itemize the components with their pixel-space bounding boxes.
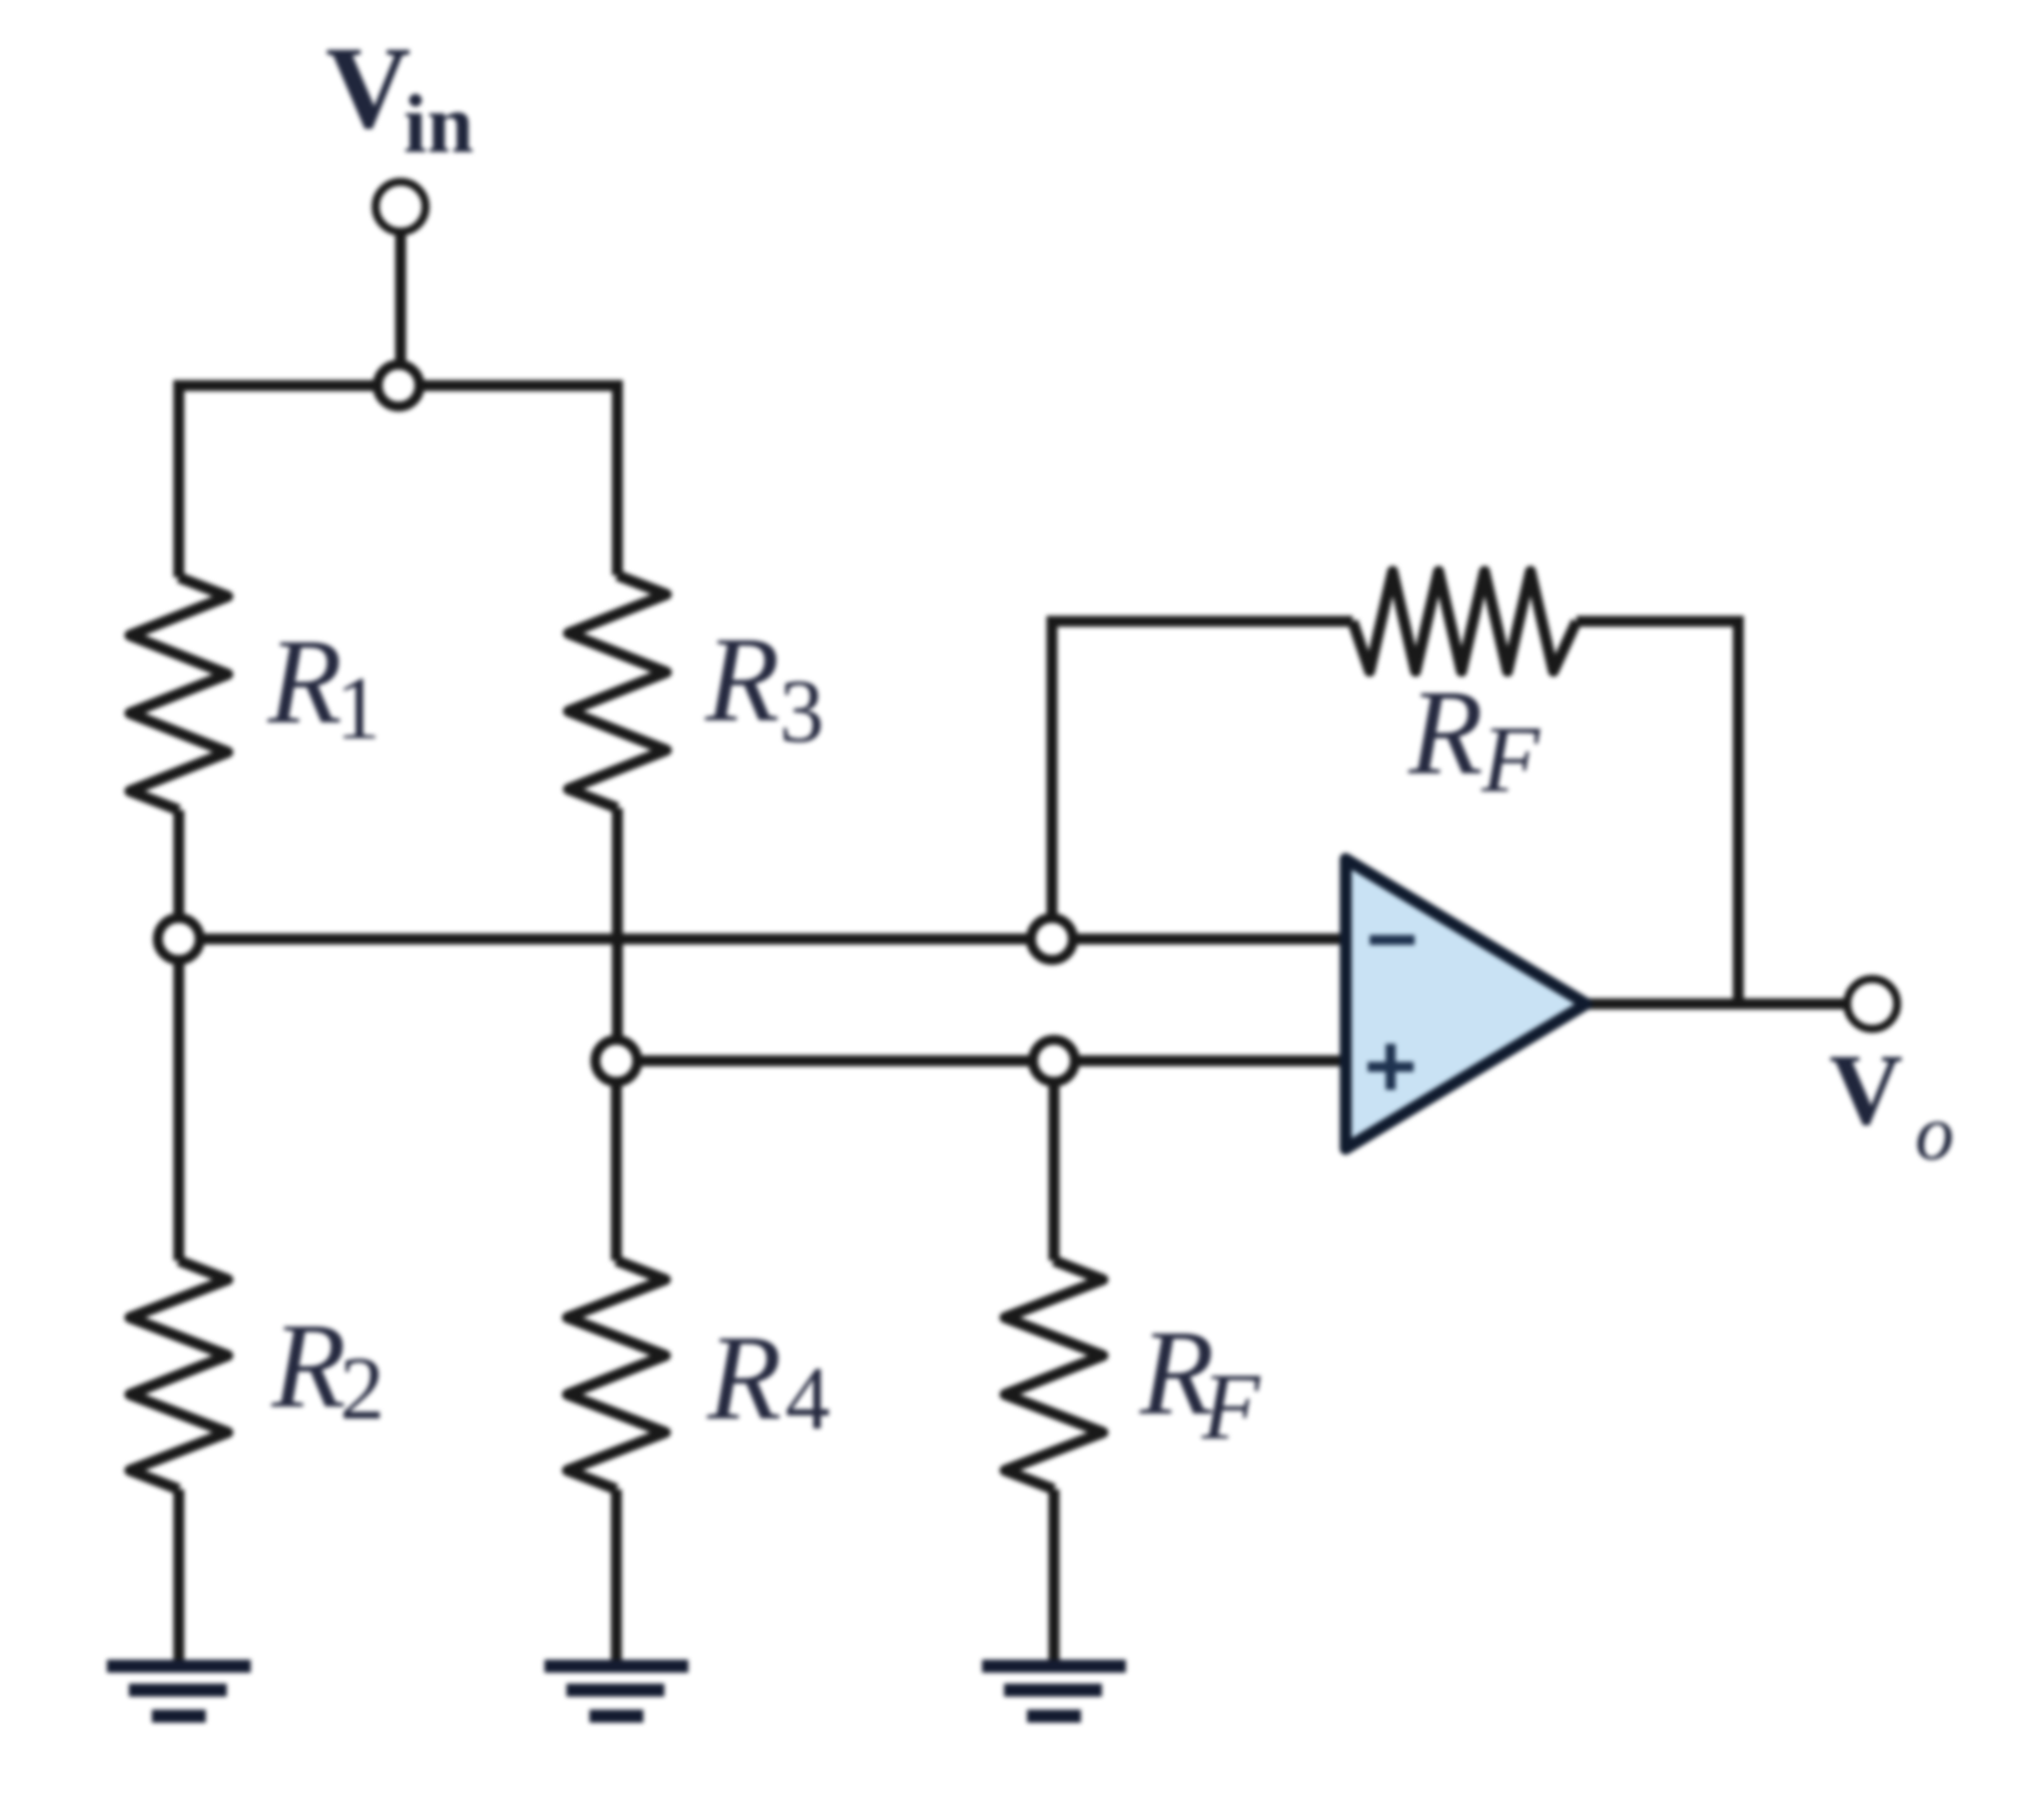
- resistor R4: [567, 1061, 665, 1661]
- wire inverting input rail: [179, 934, 1346, 945]
- svg-text:F: F: [1481, 706, 1540, 812]
- svg-text:R: R: [1408, 665, 1484, 800]
- svg-text:F: F: [1201, 1354, 1261, 1459]
- label R3: [704, 612, 824, 761]
- svg-text:R: R: [267, 614, 343, 749]
- ground (middle): [544, 1666, 688, 1716]
- node R3-R4 junction: [595, 1040, 637, 1082]
- node R1-R2 junction: [158, 918, 200, 960]
- wire top rail with drops to R1 and R3: [179, 386, 617, 577]
- node feedback junction: [1031, 918, 1073, 960]
- label R4: [706, 1311, 830, 1448]
- terminal Vo: [1847, 979, 1897, 1029]
- resistor R3: [568, 575, 666, 1061]
- svg-text:1: 1: [336, 659, 381, 758]
- svg-text:4: 4: [785, 1350, 830, 1448]
- svg-text:3: 3: [779, 662, 824, 761]
- wire feedback right segment down to output: [1576, 621, 1738, 1004]
- label Vin: [326, 22, 474, 171]
- resistor R1: [130, 577, 228, 939]
- ground (right): [982, 1666, 1126, 1716]
- svg-text:R: R: [706, 1311, 782, 1445]
- wire Vin terminal to junction: [396, 232, 407, 366]
- svg-text:R: R: [271, 1299, 347, 1433]
- label RF feedback: [1408, 665, 1540, 812]
- label RF bottom: [1139, 1306, 1261, 1459]
- resistor R2: [130, 939, 228, 1661]
- svg-text:2: 2: [340, 1340, 385, 1438]
- node Vin junction: [378, 365, 420, 407]
- resistor RF feedback (horizontal): [1353, 571, 1576, 671]
- label R1: [267, 614, 381, 758]
- wire op-amp output: [1586, 999, 1847, 1010]
- label Vo: [1829, 1034, 1954, 1176]
- op-amp U1: [1346, 859, 1586, 1149]
- wire feedback up and left segment: [1052, 621, 1353, 939]
- resistor RF bottom: [1005, 1061, 1103, 1661]
- svg-text:R: R: [704, 612, 780, 747]
- svg-text:in: in: [404, 78, 474, 171]
- wire non-inverting input rail: [616, 1056, 1346, 1067]
- pin label minus: [1370, 935, 1415, 945]
- ground (left): [107, 1666, 251, 1716]
- svg-text:o: o: [1915, 1089, 1954, 1176]
- node RF bottom junction: [1033, 1040, 1075, 1082]
- svg-text:V: V: [1829, 1034, 1903, 1147]
- svg-text:V: V: [326, 22, 411, 153]
- terminal Vin: [376, 182, 426, 232]
- label R2: [271, 1299, 385, 1438]
- pin label plus: [1368, 1044, 1414, 1090]
